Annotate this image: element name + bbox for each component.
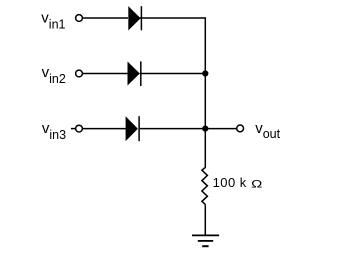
svg-text:vin1: vin1 (41, 10, 65, 32)
terminal v_in3 (76, 125, 83, 132)
wire v_in2 to diode D2 (83, 73, 128, 75)
terminal v_in1 (76, 15, 83, 22)
wire resistor to ground (204, 204, 206, 235)
svg-text:vin2: vin2 (42, 64, 66, 86)
diode D2 (128, 61, 141, 86)
junction node bus/row2 (202, 70, 208, 76)
diode D3 (126, 116, 140, 141)
wire stub left of v_in3 terminal (71, 128, 76, 130)
svg-text:vin3: vin3 (42, 120, 66, 142)
svg-text:Ω: Ω (251, 177, 262, 190)
resistor R1 zigzag (202, 167, 208, 204)
terminal v_out (237, 125, 244, 132)
wire v_in1 to diode D1 (83, 17, 128, 19)
wire D3 cathode through bus to v_out (140, 128, 237, 130)
wire D1 cathode to bus top corner (140, 17, 206, 19)
svg-text:100 k: 100 k (213, 175, 247, 190)
ground symbol (192, 235, 219, 246)
bus wire vertical (204, 18, 206, 167)
terminal v_in2 (76, 70, 83, 77)
svg-text:vout: vout (255, 120, 280, 141)
diode D1 (128, 6, 141, 30)
junction node bus/row3 (202, 126, 208, 132)
wire v_in3 to diode D3 (83, 128, 128, 130)
wire D2 cathode to bus (140, 73, 206, 75)
